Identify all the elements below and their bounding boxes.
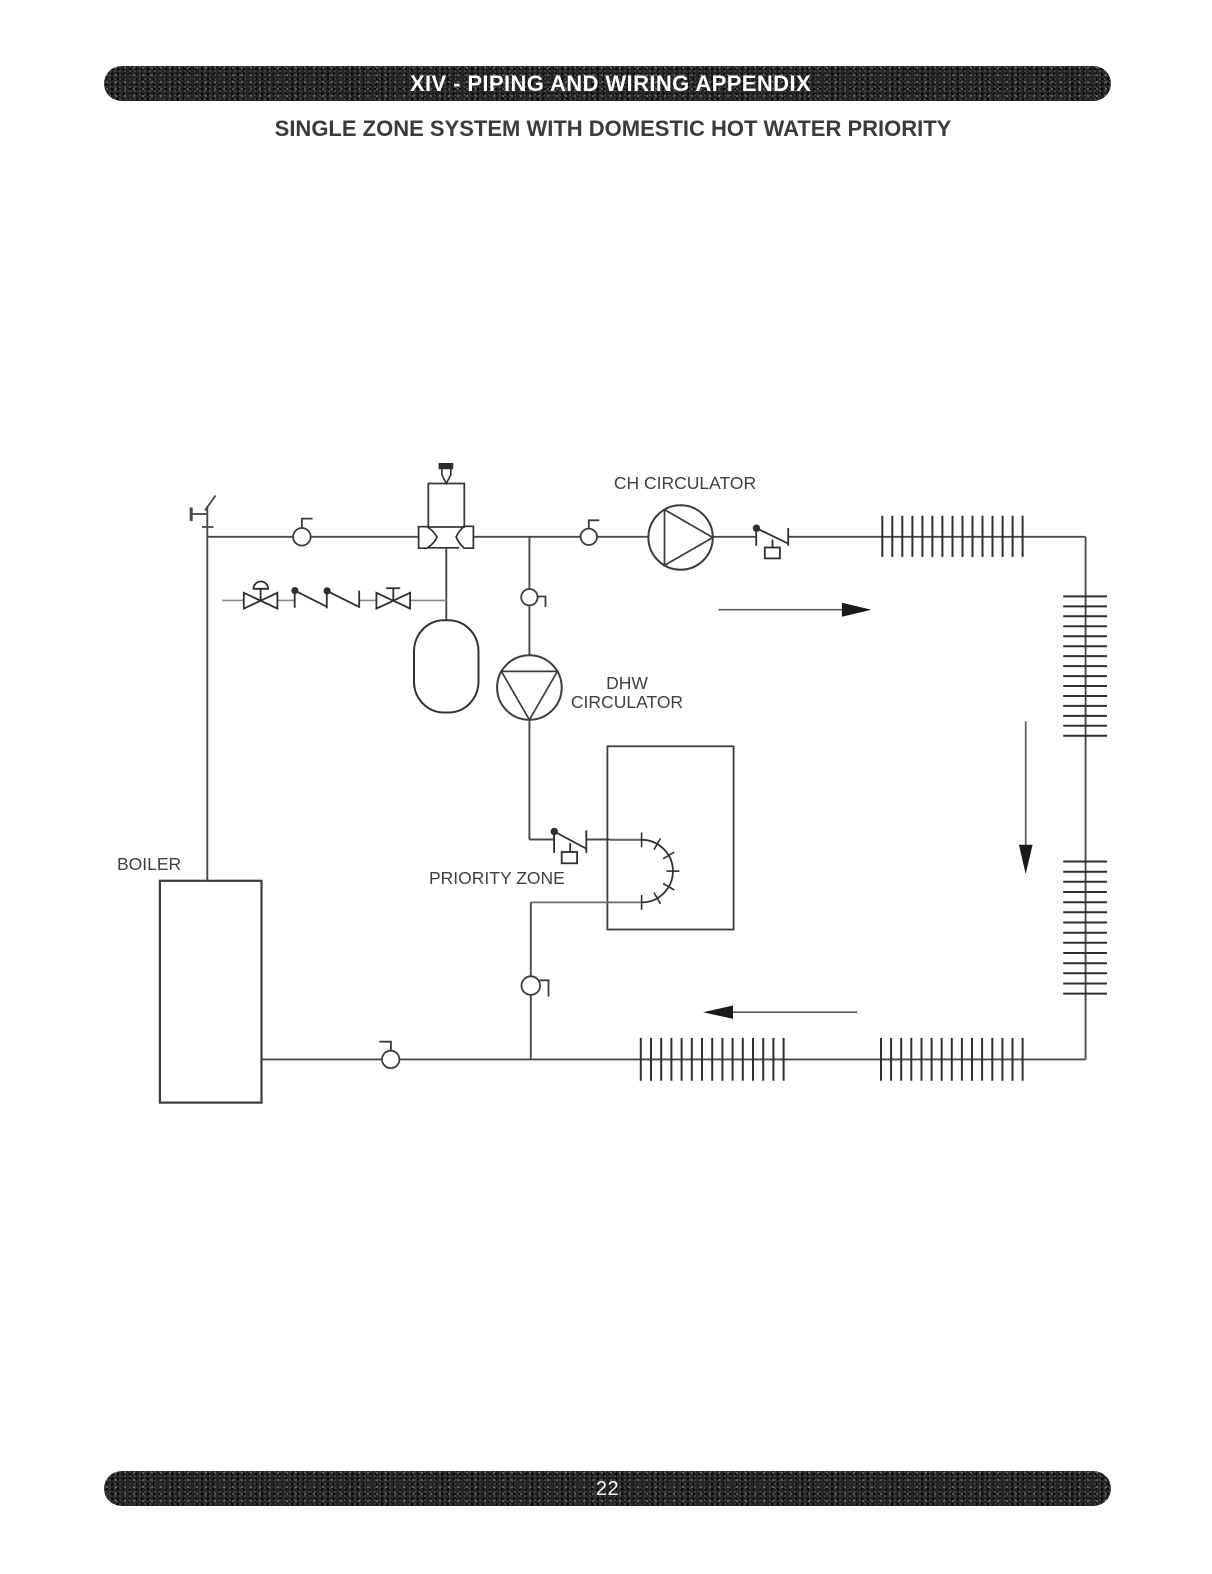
- flow arrow right (top): [719, 603, 872, 617]
- svg-text:CIRCULATOR: CIRCULATOR: [571, 692, 683, 712]
- expansion tank: [414, 620, 479, 712]
- dual check valves on fill line: [292, 588, 359, 609]
- air separator bottom line: [429, 547, 459, 549]
- DHW pump circulator: [497, 655, 562, 720]
- wire: coil outlet to return drop: [531, 901, 642, 903]
- wire: coil inlet (gray): [610, 839, 642, 841]
- wire: top supply main: [207, 536, 1085, 538]
- pipe-break slash at riser top: [205, 496, 216, 511]
- valve V1 (ball valve on supply): [293, 519, 313, 546]
- air separator right cone: [456, 526, 473, 548]
- footer page number banner: [104, 1471, 1111, 1506]
- relief valve outlet stub: [191, 508, 213, 528]
- svg-text:DHW: DHW: [606, 673, 648, 693]
- radiator (top): [882, 516, 1022, 557]
- header banner: [104, 66, 1111, 101]
- air separator left cone: [419, 527, 438, 549]
- heat exchanger coil arc: [642, 840, 673, 903]
- valve V2 (ball valve before CH pump): [581, 520, 600, 545]
- indirect tank (priority zone box): [607, 746, 733, 929]
- svg-text:CH CIRCULATOR: CH CIRCULATOR: [614, 473, 756, 493]
- wire: DHW return drop: [530, 902, 532, 1059]
- wire: DHW pump outlet down and to coil: [529, 720, 610, 840]
- air separator body: [428, 484, 464, 528]
- radiator (lower right): [1063, 862, 1107, 994]
- wire: left supply riser (boiler top to top pipe): [206, 506, 208, 881]
- radiator (bottom left): [641, 1038, 784, 1081]
- radiator (upper right): [1063, 596, 1107, 735]
- svg-text:BOILER: BOILER: [117, 854, 181, 874]
- flow arrow down (right): [1019, 721, 1033, 874]
- svg-text:PRIORITY ZONE: PRIORITY ZONE: [429, 868, 565, 888]
- boiler fill line (gray): [222, 599, 446, 601]
- shutoff valve on fill line: [376, 588, 410, 608]
- wire: drop from separator to expansion tank: [445, 548, 447, 620]
- radiator (bottom right): [881, 1038, 1023, 1081]
- page title: [7, 116, 1212, 142]
- coil tick marks: [642, 832, 680, 909]
- flow check valve on DHW branch: [552, 829, 587, 864]
- pressure reducing valve on fill line: [244, 582, 278, 609]
- wire: bottom return main: [262, 1058, 1086, 1060]
- boiler: [160, 881, 262, 1103]
- valve V5 (ball valve on boiler return): [379, 1042, 399, 1068]
- flow check valve on supply: [754, 525, 789, 558]
- flow arrow left (bottom): [703, 1006, 857, 1019]
- wire: right return drop: [1085, 537, 1087, 1060]
- valve V4 (ball valve on DHW return): [522, 976, 549, 996]
- CH pump circulator: [648, 505, 712, 569]
- valve V3 (ball valve above DHW pump): [521, 589, 545, 607]
- air vent on separator: [439, 464, 452, 484]
- wire: DHW branch drop from supply: [528, 537, 530, 656]
